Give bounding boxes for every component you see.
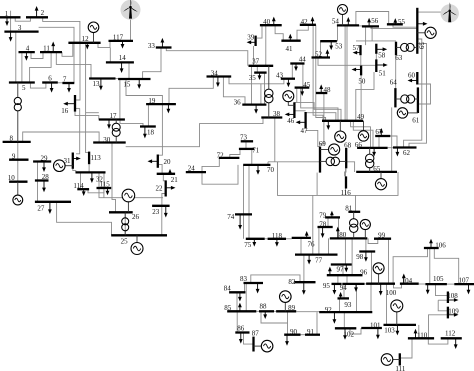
wire 92-102	[343, 312, 345, 328]
wire 83-85	[245, 283, 247, 311]
svg-text:60: 60	[408, 71, 416, 79]
load arrow bus 66	[373, 148, 375, 153]
svg-text:25: 25	[121, 238, 129, 246]
wire 70-77 drop	[278, 162, 399, 196]
svg-text:86: 86	[237, 325, 245, 333]
wire 59-61 loop	[419, 84, 431, 104]
wire 59-62a	[404, 39, 422, 148]
wire 42-49b	[316, 25, 326, 121]
wire 92-93	[339, 298, 341, 312]
bus 6	[42, 81, 58, 83]
bus 28	[35, 179, 49, 181]
svg-text:42: 42	[301, 18, 309, 26]
load arrow bus 93	[340, 296, 342, 298]
svg-text:11: 11	[43, 45, 50, 53]
wire 14-15	[128, 62, 130, 79]
transformer 37-38	[265, 66, 273, 118]
load arrow bus 117	[122, 41, 124, 45]
load arrow bus 118	[276, 239, 278, 243]
generator at bus 12	[88, 22, 99, 43]
svg-text:34: 34	[211, 70, 219, 78]
bus 63	[395, 42, 397, 56]
svg-text:29: 29	[41, 154, 49, 162]
svg-text:92: 92	[325, 306, 333, 314]
bus 17	[99, 118, 125, 120]
svg-text:52: 52	[315, 51, 323, 59]
wire 110-111	[401, 338, 412, 358]
wire 37-40	[265, 25, 267, 66]
svg-text:54: 54	[332, 18, 340, 26]
wire 42-49a	[313, 25, 323, 121]
load arrow bus 88	[264, 311, 266, 315]
svg-text:9: 9	[12, 152, 16, 160]
wire 32-115	[103, 172, 105, 188]
bus 19	[146, 103, 176, 105]
wire 13-15	[116, 78, 119, 80]
bus 87	[252, 337, 254, 352]
bus 107	[454, 283, 474, 285]
wire 32-114	[80, 172, 82, 189]
svg-text:4: 4	[26, 45, 30, 53]
bus 83	[244, 282, 264, 284]
bus 116	[345, 176, 347, 188]
bus 5	[9, 81, 35, 83]
load arrow bus 74	[239, 214, 241, 225]
load arrow bus 6	[51, 83, 53, 89]
bus 10	[9, 181, 27, 183]
svg-text:94: 94	[340, 284, 348, 292]
svg-text:113: 113	[90, 154, 101, 162]
bus 51	[375, 59, 377, 72]
wire 90-91	[301, 334, 306, 336]
wire 51-52	[318, 58, 376, 66]
svg-text:105: 105	[433, 275, 444, 283]
bus 7	[62, 82, 74, 84]
bus 106	[424, 247, 439, 249]
bus 102	[335, 327, 356, 329]
svg-text:26: 26	[132, 213, 140, 221]
wire 80-96	[351, 238, 353, 275]
svg-text:2: 2	[41, 9, 45, 17]
load arrow bus 83	[257, 283, 259, 289]
load arrow bus 82	[303, 282, 305, 291]
svg-text:66: 66	[355, 141, 363, 149]
wire 15-19	[126, 79, 162, 104]
wire 33-37	[166, 48, 248, 66]
bus 24	[186, 171, 206, 173]
bus 60	[416, 72, 418, 85]
wire 114-115	[88, 188, 104, 193]
wire 11-13	[56, 52, 91, 78]
wire 86-87	[244, 333, 254, 345]
wire 69 drop	[316, 173, 318, 196]
wire 52-53	[320, 41, 322, 57]
bus 74	[235, 213, 252, 215]
svg-text:101: 101	[370, 322, 381, 330]
svg-text:71: 71	[252, 146, 260, 154]
wire 65-81	[355, 195, 357, 211]
bus 92	[319, 311, 372, 313]
wire 76-77	[300, 238, 302, 255]
load arrow bus 15	[138, 79, 140, 85]
load arrow bus 100	[380, 284, 382, 292]
generator at bus 69	[320, 144, 340, 155]
wire 30-38	[126, 118, 263, 147]
bus 114	[77, 188, 89, 190]
load arrow bus 76	[306, 235, 308, 238]
svg-text:50: 50	[358, 77, 366, 85]
wire 43-44	[291, 64, 293, 79]
bus 37	[249, 65, 274, 67]
bus 73	[241, 140, 253, 142]
wire 4-11	[31, 52, 43, 58]
wire 71-73	[245, 141, 247, 149]
bus 104	[400, 283, 419, 285]
svg-text:8: 8	[10, 134, 14, 142]
bus 39	[254, 36, 256, 46]
load arrow bus 97	[345, 265, 347, 269]
bus 48	[316, 92, 327, 94]
bus 118	[268, 238, 286, 240]
bus 49	[322, 120, 363, 122]
bus 72	[219, 157, 240, 159]
svg-text:110: 110	[417, 331, 428, 339]
load arrow bus 115	[107, 188, 109, 191]
wire 85-89	[261, 311, 288, 323]
load arrow bus 1	[6, 17, 8, 22]
generator at bus 25	[131, 235, 143, 254]
load arrow bus 39	[251, 41, 256, 43]
bus 111	[399, 353, 401, 365]
generator at bus 49b	[358, 121, 368, 141]
svg-text:18: 18	[147, 129, 155, 137]
svg-text:77: 77	[315, 256, 323, 264]
wire 12-14	[109, 48, 111, 63]
svg-text:69: 69	[319, 140, 327, 148]
load arrow bus 2	[36, 10, 38, 17]
wire 41-42	[297, 25, 308, 41]
wire 89-92	[296, 311, 319, 313]
wire 3-5	[15, 32, 17, 83]
svg-text:115: 115	[100, 181, 111, 189]
load arrow bus 96	[329, 271, 331, 276]
svg-text:16: 16	[61, 107, 69, 115]
wire 100-106	[393, 248, 427, 284]
wire 4-5	[21, 52, 23, 82]
wire 6-7	[58, 82, 63, 84]
wire 40-41	[275, 25, 283, 41]
load arrow bus 33	[161, 42, 163, 48]
load arrow bus 53	[330, 41, 332, 46]
wire 26-30	[112, 143, 116, 213]
bus 65	[356, 171, 397, 173]
bus 82	[294, 281, 315, 283]
wire 68-81	[345, 168, 347, 195]
wire 98-100	[371, 252, 373, 284]
bus 89	[276, 310, 296, 312]
wire 70-71	[251, 149, 253, 165]
load arrow bus 51	[376, 64, 383, 66]
wire 77-80	[328, 238, 330, 254]
svg-text:100: 100	[386, 289, 397, 297]
wire 23-32	[99, 172, 163, 197]
bus 110	[408, 337, 434, 339]
bus 26	[109, 211, 133, 213]
svg-text:41: 41	[286, 45, 294, 53]
bus 27	[35, 201, 71, 203]
wire 68-65	[346, 162, 354, 172]
bus 21	[157, 173, 175, 175]
wire 56-57	[365, 26, 367, 45]
svg-text:15: 15	[123, 81, 131, 89]
bus 50	[360, 66, 362, 76]
load arrow bus 114	[83, 189, 85, 192]
load arrow bus 31	[73, 158, 77, 160]
generator at bus 111	[381, 354, 400, 366]
bus 16	[74, 95, 76, 112]
bus 46	[293, 102, 295, 118]
bus 81	[348, 211, 360, 213]
wire 62-66	[388, 147, 393, 149]
bus 76	[292, 237, 311, 239]
bus 64	[394, 88, 396, 107]
wire 79-80	[338, 217, 340, 238]
bus 13	[89, 77, 115, 79]
wire 47-69	[306, 130, 320, 146]
wire 71-72	[230, 149, 240, 158]
bus 14	[106, 61, 134, 63]
load arrow bus 42	[312, 21, 314, 25]
svg-text:108: 108	[447, 292, 458, 300]
wire 109-110	[429, 315, 448, 339]
transformer 69-68	[320, 157, 346, 165]
bus 3	[4, 30, 38, 32]
wire 49-66b	[353, 121, 373, 148]
wire 85-88	[256, 310, 259, 312]
bus 59	[416, 8, 418, 54]
load arrow bus 12	[86, 43, 88, 46]
wind turbine 1	[121, 0, 141, 20]
load arrow bus 62	[396, 148, 398, 153]
svg-text:30: 30	[103, 136, 111, 144]
wire 105-108	[436, 284, 448, 296]
wire 37-39	[253, 46, 255, 66]
bus 66	[357, 147, 388, 149]
svg-text:81: 81	[345, 204, 353, 212]
generator at bus 80	[360, 219, 370, 238]
transformer 17-30	[112, 120, 120, 143]
bus 113	[88, 152, 90, 165]
generator at bus 26	[122, 189, 135, 212]
wire 63-64	[395, 55, 397, 88]
svg-text:89: 89	[288, 304, 296, 312]
wire 105-107	[447, 283, 454, 285]
bus 75	[246, 238, 265, 240]
svg-text:65: 65	[373, 165, 381, 173]
svg-text:85: 85	[224, 304, 232, 312]
bus 12	[68, 42, 100, 44]
svg-text:5: 5	[22, 84, 26, 92]
wire 21-22	[163, 174, 165, 181]
bus 2	[26, 16, 48, 18]
bus 54	[337, 24, 359, 26]
generator at bus 59	[417, 27, 436, 38]
svg-text:44: 44	[299, 55, 307, 63]
bus 100	[366, 283, 395, 285]
svg-text:48: 48	[324, 86, 332, 94]
load arrow bus 11	[52, 46, 54, 53]
load arrow bus 46	[289, 113, 295, 115]
load arrow bus 21	[169, 172, 171, 175]
wire 38-down	[274, 118, 276, 162]
load arrow bus 18	[144, 127, 146, 135]
load arrow bus 48	[320, 89, 322, 94]
load arrow bus 98	[365, 252, 367, 258]
wire cross-63	[356, 40, 396, 42]
load arrow bus 75	[253, 239, 255, 243]
bus 38	[261, 116, 282, 118]
bus 99	[374, 238, 391, 240]
svg-text:117: 117	[113, 34, 124, 42]
wire 9-10	[17, 160, 19, 182]
bus 18	[140, 125, 156, 127]
load arrow bus 102	[344, 328, 346, 335]
wire 54-56	[359, 25, 362, 27]
wire 91-92	[316, 312, 318, 335]
bus 30	[93, 141, 126, 143]
load arrow bus 92	[333, 312, 335, 320]
load arrow bus 16	[67, 103, 75, 105]
wire 80-99	[368, 238, 378, 243]
wire 34-43	[229, 77, 284, 84]
bus 62	[393, 146, 417, 148]
bus 11	[40, 51, 62, 53]
svg-text:39: 39	[247, 33, 255, 41]
svg-text:79: 79	[319, 212, 327, 220]
svg-text:3: 3	[18, 24, 22, 32]
wire 100-103	[386, 284, 388, 325]
wire 94-100	[365, 283, 367, 285]
generator at bus 61	[397, 108, 418, 118]
svg-text:111: 111	[395, 365, 405, 371]
generator at bus 54	[338, 5, 348, 26]
load arrow bus 109	[448, 314, 455, 316]
wire 19-20	[159, 104, 163, 155]
bus 35	[254, 71, 266, 73]
wire 18-19	[147, 104, 149, 126]
svg-text:106: 106	[435, 241, 446, 249]
svg-text:97: 97	[337, 265, 345, 273]
svg-text:10: 10	[8, 174, 16, 182]
wire 99-100	[388, 239, 390, 284]
wire 55-59	[393, 24, 417, 27]
wire 51-58	[375, 54, 377, 60]
wire 25-26	[124, 212, 126, 235]
wire 80-97	[344, 238, 346, 264]
load arrow bus 43	[287, 79, 289, 84]
svg-text:17: 17	[110, 112, 118, 120]
load arrow bus 14	[121, 62, 123, 69]
wire 110-112	[428, 338, 448, 344]
wire 12-117	[98, 41, 110, 48]
bus 108	[447, 292, 449, 304]
svg-text:114: 114	[73, 182, 84, 190]
load arrow bus 13	[100, 79, 102, 87]
bus 45	[295, 86, 310, 88]
wire 103-110	[418, 325, 420, 338]
svg-text:38: 38	[273, 110, 281, 118]
bus 55	[387, 23, 403, 25]
wire 36-37	[251, 66, 253, 105]
wire 35-37	[256, 66, 258, 73]
wire 113-32	[88, 164, 90, 172]
load arrow bus 44	[295, 64, 297, 68]
wire 47-49	[306, 113, 336, 121]
generator at bus 89	[280, 291, 292, 311]
load arrow bus 80	[337, 231, 339, 239]
wire 45-49	[301, 88, 338, 121]
wire 77-78	[318, 227, 320, 255]
load arrow bus 41	[289, 38, 291, 41]
bus 70	[243, 164, 270, 166]
svg-text:21: 21	[171, 176, 179, 184]
load arrow bus 103	[396, 325, 398, 331]
wire 82-83	[251, 275, 300, 283]
wire 70-75	[248, 165, 250, 239]
wire 54-55	[356, 12, 389, 26]
wire 49-51	[356, 72, 374, 121]
svg-text:27: 27	[37, 205, 45, 213]
load arrow bus 57	[357, 52, 361, 54]
bus 61	[417, 87, 419, 113]
bus 96	[327, 274, 363, 276]
wire 93-94	[343, 284, 345, 299]
wire 88-89	[274, 310, 276, 312]
bus 31	[72, 153, 74, 169]
svg-text:56: 56	[371, 17, 379, 25]
bus 9	[9, 159, 28, 161]
svg-text:55: 55	[398, 18, 406, 26]
svg-text:93: 93	[344, 301, 352, 309]
svg-text:13: 13	[93, 80, 101, 88]
wire 27-28	[37, 181, 39, 202]
load arrow bus 35	[259, 73, 261, 76]
wire 17-113b	[86, 112, 99, 114]
load arrow bus 7	[68, 83, 70, 89]
bus 94	[342, 283, 364, 285]
load arrow bus 54	[347, 21, 349, 25]
bus 93	[338, 297, 350, 299]
wire 77-82	[303, 255, 305, 283]
svg-text:35: 35	[249, 74, 257, 82]
wire 34-36b	[260, 84, 262, 105]
load arrow bus 3	[10, 32, 12, 38]
bus 86	[235, 331, 249, 333]
wire 108-109b	[438, 300, 448, 311]
load arrow bus 90	[286, 335, 288, 342]
wire 49-66a	[351, 121, 371, 148]
bus 42	[300, 24, 316, 26]
wire 69-70b	[268, 161, 320, 163]
svg-text:36: 36	[234, 98, 242, 106]
wire 92-94	[356, 284, 358, 312]
bus 34	[207, 75, 232, 77]
svg-text:53: 53	[335, 43, 343, 51]
svg-text:68: 68	[344, 142, 352, 150]
bus 25	[111, 234, 167, 236]
wire 16-17	[75, 112, 99, 120]
generator at bus 10	[13, 182, 23, 205]
